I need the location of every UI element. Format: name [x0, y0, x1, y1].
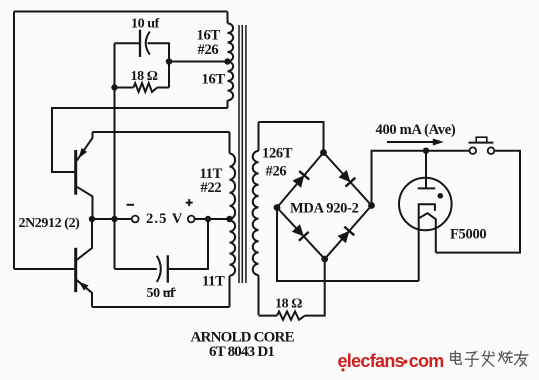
svg-text:2.5 V: 2.5 V	[146, 211, 183, 227]
svg-text:126T: 126T	[262, 145, 293, 161]
capacitor C1 10uf curved plate	[146, 32, 150, 55]
transistor Q2 2N2912 lower: base bar	[74, 248, 77, 292]
wire bridge right vertex up to output row	[372, 151, 470, 206]
wire upper horizontal from Q1 emitter to 11T winding rail	[93, 131, 230, 133]
diode D2 (top vertex to right vertex)	[339, 170, 351, 182]
junction center-rail node on supply row	[111, 216, 117, 222]
junction loop right node	[166, 58, 172, 64]
flashtube trigger electrode (L with hook) and cathode lead	[419, 204, 435, 281]
svg-text:com: com	[409, 351, 444, 371]
diode D1 (left vertex to top vertex)	[293, 175, 305, 187]
transistor Q2 collector diagonal up to supply row	[77, 219, 92, 260]
wire from C1 to loop right side	[148, 43, 169, 87]
svg-text:16T: 16T	[202, 72, 226, 88]
junction flashtube anode node	[423, 148, 429, 154]
current arrow line	[387, 141, 436, 143]
flashtube anode lead and plate	[418, 151, 436, 189]
wire bottom return from Q2 emitter to transformer 11T rail bottom	[92, 306, 230, 308]
wire feedback tap: transformer 16T bottom to upper transistor base branch	[52, 108, 228, 172]
transistor Q2 emitter diagonal with arrow and lead down	[77, 280, 92, 307]
watermark character dian	[451, 351, 462, 364]
resistor R1 zigzag body	[134, 83, 158, 92]
svg-text:F5000: F5000	[450, 226, 486, 242]
svg-text:2N2912 (2): 2N2912 (2)	[19, 216, 81, 231]
svg-text:6T 8043 D1: 6T 8043 D1	[209, 344, 274, 360]
svg-text:50 uf: 50 uf	[147, 286, 176, 301]
svg-text:10 uf: 10 uf	[131, 17, 160, 32]
flashtube V1 F5000 envelope	[399, 178, 452, 231]
wire top rail from left wall to transformer primary top	[14, 11, 228, 13]
capacitor C2 50uf curved plate	[157, 256, 161, 282]
wire switch to right wall down to flashtube return	[436, 151, 520, 253]
capacitor C1 10uf straight plate	[139, 30, 141, 57]
wire bridge left vertex down and across to flashtube cathode lead	[277, 208, 419, 282]
transistor Q2 emitter arrow (PNP, pointing into base bar)	[79, 282, 89, 291]
transistor Q1 2N2912 upper: base bar	[74, 150, 77, 195]
junction loop left node	[111, 84, 117, 90]
wire loop output to transformer 16T center tap	[169, 61, 228, 63]
switch S1 left contact	[470, 147, 477, 154]
junction bridge left vertex	[274, 204, 281, 211]
junction bridge top vertex	[320, 149, 327, 156]
transformer secondary rail and 126T winding	[258, 122, 260, 315]
transformer core lamination lines	[239, 25, 246, 283]
wire supply row left segment	[92, 218, 132, 220]
wire C2 right side up to supply row	[168, 219, 208, 269]
transistor Q1 emitter arrow (PNP, pointing into base bar)	[79, 148, 88, 158]
resistor R1 right wire	[157, 87, 169, 89]
switch S1 button cap	[476, 137, 487, 142]
svg-text:#22: #22	[201, 180, 222, 196]
svg-text:#26: #26	[266, 163, 287, 179]
battery plus terminal circle	[188, 216, 195, 223]
wire center vertical from 18-ohm loop down through row to 50uf branch	[114, 43, 116, 269]
winding 16T #26	[227, 23, 233, 61]
capacitor C2 50uf straight plate	[167, 255, 169, 283]
transformer T1 primary upper rail (16T windings)	[227, 12, 229, 109]
flashtube gas-fill dot	[438, 193, 444, 199]
bridge rectifier MDA 920-2 diamond edges	[277, 153, 372, 260]
capacitor C2 50uf branch: left wire	[115, 268, 157, 270]
svg-text:#26: #26	[198, 42, 219, 58]
svg-text:MDA 920-2: MDA 920-2	[290, 200, 359, 216]
winding 11T lower	[230, 221, 236, 276]
wire left wall vertical	[13, 12, 15, 270]
resistor R2 18 ohm (secondary) zigzag body	[277, 311, 305, 319]
wire supply row right segment to transformer center tap	[195, 218, 230, 220]
capacitor C1 10uf loop: top wire left of plates	[115, 42, 141, 44]
diode D3 (left vertex to bottom vertex)	[292, 224, 304, 236]
svg-text:18 Ω: 18 Ω	[275, 297, 302, 312]
battery minus terminal circle	[132, 216, 139, 223]
winding 11T #22	[230, 154, 236, 220]
junction bridge right vertex	[368, 202, 375, 209]
transistor Q1 collector diagonal	[77, 187, 93, 219]
junction bridge bottom vertex	[321, 256, 328, 263]
junction 50uf branch node	[205, 216, 211, 222]
battery plus sign	[186, 199, 193, 206]
winding 16T lower	[228, 62, 234, 101]
wire R2 to bridge bottom vertex	[305, 259, 325, 316]
current arrow head	[433, 139, 444, 146]
switch S1 pushbutton: actuator bar	[469, 142, 494, 144]
svg-text:elecfans: elecfans	[338, 351, 405, 371]
wire secondary bottom to R2	[259, 315, 278, 317]
flashtube cathode peak electrode and right lead	[419, 213, 436, 252]
svg-text:400 mA (Ave): 400 mA (Ave)	[376, 122, 456, 138]
junction 11T rail center tap	[226, 216, 232, 222]
svg-text:11T: 11T	[202, 274, 225, 290]
diode D4 (bottom vertex to right vertex)	[338, 231, 350, 243]
svg-text:18 Ω: 18 Ω	[131, 69, 158, 84]
watermark character zi	[465, 352, 478, 366]
winding 126T #26	[253, 151, 259, 275]
svg-text:ARNOLD CORE: ARNOLD CORE	[191, 329, 295, 345]
transistor Q1 emitter diagonal with lead to 11T rail top wire	[77, 132, 93, 161]
resistor R1 18 ohm (feedback loop): left wire	[115, 87, 134, 89]
wire secondary top to bridge top vertex	[259, 122, 324, 153]
battery minus sign	[127, 204, 134, 206]
switch S1 right contact	[488, 147, 495, 154]
watermark character you	[515, 351, 528, 366]
junction Q1/Q2 collector node	[89, 216, 95, 222]
wire base lead of lower transistor	[14, 268, 74, 270]
junction 16T center tap	[224, 58, 230, 64]
transformer T1 primary lower rail (11T windings)	[229, 132, 231, 307]
watermark character fa	[482, 351, 494, 366]
watermark character shao	[498, 351, 512, 363]
